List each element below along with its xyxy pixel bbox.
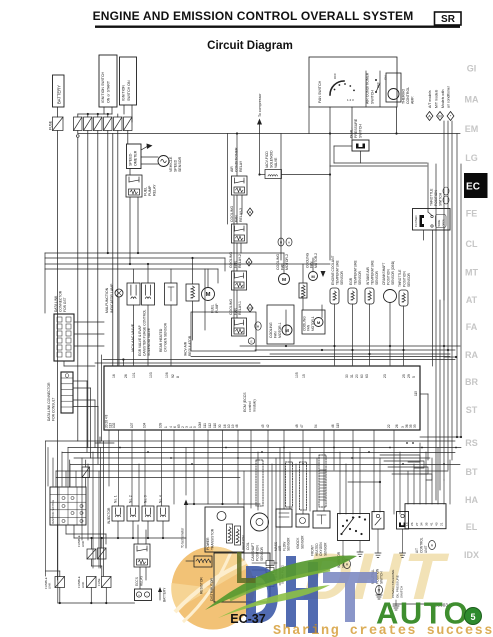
- neutral position switch: [371, 512, 384, 595]
- wire feeds to vent valve: [205, 196, 234, 332]
- dual pressure switch: [350, 118, 370, 151]
- wire dual pressure to rail: [330, 146, 427, 166]
- svg-text:31: 31: [350, 374, 354, 378]
- distributor box: [210, 553, 270, 602]
- svg-text:45: 45: [261, 424, 265, 428]
- wires fuel pump relay: [130, 169, 138, 265]
- legend A/T models: [426, 90, 433, 120]
- svg-text:CRANKSHAFT: CRANKSHAFT: [382, 263, 386, 285]
- SR section box: [435, 12, 462, 25]
- svg-text:47: 47: [300, 424, 304, 428]
- svg-text:DUAL-: DUAL-: [350, 127, 354, 138]
- svg-text:SENSOR: SENSOR: [340, 270, 344, 285]
- svg-text:109: 109: [159, 422, 163, 428]
- ignition switch ON box: [120, 57, 137, 105]
- svg-text:SWITCH: SWITCH: [438, 192, 442, 206]
- svg-text:CAMSHAFT: CAMSHAFT: [251, 543, 255, 561]
- svg-text:15: 15: [302, 374, 306, 378]
- svg-text:Models with: Models with: [441, 89, 445, 108]
- svg-text:KNOCK: KNOCK: [296, 537, 300, 549]
- fuse row F1-F6: [74, 117, 133, 131]
- svg-text:No. 3: No. 3: [144, 495, 148, 503]
- ground symbols bottom right: [376, 585, 399, 610]
- svg-text:Sharing creates success: Sharing creates success: [273, 624, 493, 637]
- svg-text:FAN: FAN: [235, 215, 239, 222]
- svg-text:54: 54: [314, 424, 318, 428]
- EGR valve and EVAP canister purge control solenoid valve: [138, 283, 155, 365]
- throttle position sensor: [398, 269, 411, 365]
- watermark sharing creates success: [273, 624, 493, 637]
- svg-text:SPEED: SPEED: [174, 159, 178, 172]
- svg-text:25: 25: [402, 374, 406, 378]
- svg-text:103: 103: [149, 372, 153, 378]
- svg-text:ECCS: ECCS: [135, 577, 139, 586]
- svg-text:RELAY-1: RELAY-1: [238, 301, 242, 315]
- fuse bottom 2: [97, 577, 111, 588]
- svg-text:THROTTLE: THROTTLE: [398, 269, 402, 287]
- rear heated oxygen sensor: [159, 283, 177, 365]
- svg-text:OMETER: OMETER: [134, 150, 138, 166]
- EC tab (active): [464, 173, 488, 198]
- svg-text:IGNITION SWITCH: IGNITION SWITCH: [51, 500, 55, 524]
- bottom left connection wires: [46, 525, 187, 604]
- svg-text:LINK: LINK: [48, 583, 52, 589]
- svg-text:60: 60: [360, 374, 364, 378]
- svg-text:To tachometer: To tachometer: [181, 527, 185, 548]
- IACV-AAC valve: [127, 283, 140, 365]
- svg-text:SOLENOID: SOLENOID: [270, 150, 274, 168]
- svg-text:42: 42: [266, 424, 270, 428]
- fusible link 3 (left): [44, 577, 65, 590]
- ECM top pin numbers: [112, 372, 416, 378]
- relay-1 enclosure box: [191, 312, 261, 351]
- vehicle speed sensor VSS: [141, 156, 182, 173]
- svg-text:29: 29: [407, 374, 411, 378]
- motor wires: [284, 253, 322, 334]
- svg-text:ENGINE AND EMISSION CONTROL OV: ENGINE AND EMISSION CONTROL OVERALL SYST…: [93, 9, 414, 23]
- wires data link to ECM: [64, 322, 104, 464]
- svg-text:SPEED-: SPEED-: [129, 152, 133, 166]
- MEC903A reference: [393, 603, 452, 608]
- svg-text:VALVE: VALVE: [274, 157, 278, 168]
- svg-text:110: 110: [213, 423, 217, 428]
- relay stack wires: [237, 195, 242, 318]
- ECM (ECCS control module) box: [104, 366, 420, 430]
- svg-text:8: 8: [176, 376, 180, 378]
- svg-text:FE: FE: [466, 209, 478, 219]
- svg-text:22: 22: [387, 424, 391, 428]
- svg-text:FUEL: FUEL: [144, 187, 148, 196]
- svg-text:UNIT: UNIT: [424, 546, 428, 553]
- resistor: [186, 556, 212, 594]
- svg-text:105: 105: [295, 372, 299, 378]
- power steering oil pressure switch: [391, 512, 409, 599]
- page title: [93, 9, 460, 28]
- power transistor: [205, 507, 244, 552]
- svg-text:MOTOR-2: MOTOR-2: [285, 254, 289, 270]
- svg-text:CONDITIONER: CONDITIONER: [235, 147, 239, 172]
- injector No.4: [157, 495, 169, 521]
- svg-text:CLOSED: CLOSED: [414, 215, 418, 227]
- watermark circle (under): [171, 546, 254, 629]
- svg-text:30: 30: [218, 424, 222, 428]
- svg-text:No. 1: No. 1: [114, 495, 118, 503]
- svg-text:AIR: AIR: [230, 166, 234, 172]
- svg-text:POSITION: POSITION: [386, 269, 390, 285]
- svg-text:-: -: [146, 593, 147, 597]
- svg-text:INJECTOR: INJECTOR: [107, 507, 111, 524]
- svg-text:POWER: POWER: [206, 537, 210, 550]
- EGR temperature sensor: [348, 260, 362, 365]
- mass air flow sensor: [274, 509, 292, 551]
- A/T control unit: [405, 504, 446, 553]
- svg-text:PRESSURE: PRESSURE: [354, 118, 358, 138]
- fuse above ignition switch: [70, 460, 90, 487]
- svg-text:112: 112: [208, 423, 212, 428]
- svg-text:111: 111: [203, 423, 207, 428]
- main bus wires below ECM: [46, 437, 462, 576]
- svg-text:FUSE: FUSE: [97, 578, 101, 586]
- svg-text:46: 46: [331, 424, 335, 428]
- svg-text:SWITCH ON: SWITCH ON: [127, 80, 131, 101]
- battery (bottom): [135, 587, 167, 602]
- svg-text:RA: RA: [465, 350, 478, 360]
- watermark badge circle 5: [465, 608, 482, 625]
- svg-text:M: M: [248, 306, 251, 311]
- svg-text:SENSOR: SENSOR: [407, 272, 411, 287]
- battery B1 (top): [53, 75, 65, 107]
- svg-text:COOLING: COOLING: [229, 252, 233, 268]
- shielded cable symbols: [256, 455, 326, 510]
- svg-text:HA: HA: [465, 495, 478, 505]
- svg-text:THROTTLE: THROTTLE: [430, 188, 434, 206]
- svg-text:115: 115: [414, 391, 418, 396]
- svg-text:FUSE: FUSE: [49, 120, 53, 130]
- svg-text:To compressor: To compressor: [258, 93, 262, 117]
- svg-text:ECM (ECCS: ECM (ECCS: [243, 392, 247, 412]
- svg-text:RELAY: RELAY: [153, 184, 157, 196]
- svg-text:COOLING: COOLING: [276, 254, 280, 270]
- svg-text:16: 16: [112, 374, 116, 378]
- svg-text:TRANSISTOR: TRANSISTOR: [211, 528, 215, 550]
- svg-text:115: 115: [336, 423, 340, 428]
- svg-text:IACV-FICD: IACV-FICD: [265, 151, 269, 168]
- svg-text:CANISTER PURGE CONTROL: CANISTER PURGE CONTROL: [142, 309, 146, 356]
- ECCS relay: [134, 544, 150, 586]
- injector No.3: [142, 495, 154, 521]
- svg-text:POSITION: POSITION: [402, 271, 406, 287]
- svg-text:102: 102: [112, 422, 116, 428]
- data link connector for CONSULT: [47, 372, 73, 421]
- svg-text:No. 4: No. 4: [159, 495, 163, 503]
- svg-text:ST: ST: [466, 405, 478, 415]
- svg-text:Circuit Diagram: Circuit Diagram: [207, 40, 293, 52]
- svg-text:TEMPERATURE: TEMPERATURE: [353, 260, 357, 285]
- svg-text:MT: MT: [465, 268, 478, 278]
- svg-text:WIDE: WIDE: [437, 219, 441, 226]
- svg-text:FAN SWITCH: FAN SWITCH: [318, 80, 322, 103]
- svg-text:REAR HEATED: REAR HEATED: [159, 328, 163, 352]
- svg-text:BT: BT: [466, 467, 478, 477]
- watermark leaf swoosh: [205, 556, 357, 619]
- svg-text:CONNECTOR: CONNECTOR: [58, 290, 62, 312]
- svg-text:33: 33: [413, 424, 417, 428]
- svg-text:27: 27: [415, 522, 419, 526]
- right rail wires: [420, 121, 462, 500]
- svg-text:M: M: [206, 292, 211, 298]
- cooling fan motor-1 (M/T): [302, 310, 325, 334]
- svg-text:No. 2: No. 2: [129, 495, 133, 503]
- cooling fan relay-3: [230, 206, 253, 243]
- air conditioner switch: [366, 71, 388, 107]
- air conditioner relay: [230, 132, 247, 195]
- svg-text:IACV-AIR: IACV-AIR: [184, 341, 188, 356]
- main feed wire to right rail: [77, 134, 461, 138]
- throttle position switch: [413, 163, 451, 366]
- ignition switch contact table: [50, 487, 86, 525]
- svg-text:IGNITION SWITCH: IGNITION SWITCH: [101, 71, 105, 103]
- svg-text:35: 35: [425, 522, 429, 526]
- engine coolant temperature sensor: [330, 256, 344, 366]
- svg-text:14: 14: [405, 522, 409, 526]
- svg-text:26: 26: [395, 424, 399, 428]
- ignition switch ON or START box: [99, 55, 117, 107]
- stair step wires to A/T unit: [380, 455, 432, 480]
- svg-text:EC: EC: [466, 182, 480, 193]
- IACV-FICD solenoid valve: [228, 134, 332, 225]
- svg-text:SWITCH: SWITCH: [359, 124, 363, 138]
- svg-text:SOLENOID VALVE: SOLENOID VALVE: [147, 327, 151, 356]
- svg-text:COIL: COIL: [246, 542, 250, 550]
- svg-text:SENSOR: SENSOR: [178, 156, 182, 172]
- svg-text:SENSOR: SENSOR: [323, 542, 327, 556]
- svg-text:TEMPERATURE: TEMPERATURE: [370, 260, 374, 285]
- svg-text:107: 107: [130, 422, 134, 428]
- crankshaft position sensor (OBD): [382, 261, 397, 365]
- svg-text:RESISTOR: RESISTOR: [200, 577, 204, 594]
- watermark dark stem: [237, 552, 256, 583]
- svg-text:A/T: A/T: [415, 548, 419, 553]
- svg-text:REGULATOR: REGULATOR: [188, 335, 192, 356]
- svg-text:43: 43: [434, 522, 438, 526]
- malfunction indicator lamp: [105, 283, 123, 365]
- bottom drop wires: [48, 430, 450, 585]
- svg-text:OPEN: OPEN: [442, 219, 446, 226]
- svg-text:5: 5: [470, 612, 475, 622]
- svg-text:OXYGEN SENSOR: OXYGEN SENSOR: [164, 322, 168, 352]
- fusible link 1: [77, 535, 96, 559]
- svg-text:SWITCH: SWITCH: [370, 90, 374, 104]
- watermark AUTO text: [376, 596, 469, 631]
- svg-text:92: 92: [171, 374, 175, 378]
- collector bus above ECM: [95, 345, 460, 366]
- svg-text:GI: GI: [467, 64, 477, 74]
- svg-text:LG: LG: [465, 153, 478, 163]
- wire ign boxes to fuse row: [78, 105, 132, 122]
- svg-text:AT: AT: [466, 295, 478, 305]
- svg-text:LINK: LINK: [81, 541, 85, 547]
- svg-text:FA: FA: [466, 322, 478, 332]
- svg-text:20: 20: [355, 374, 359, 378]
- svg-text:EL: EL: [466, 522, 478, 532]
- cooling fan motor-2 (M/T): [306, 252, 326, 280]
- svg-text:THERMO: THERMO: [402, 89, 406, 104]
- bus stubs to valves: [134, 257, 194, 284]
- front heated oxygen sensor: [311, 511, 331, 556]
- fuse bottom: [77, 576, 96, 588]
- svg-text:module): module): [253, 399, 257, 412]
- svg-text:COOLING: COOLING: [229, 299, 233, 315]
- svg-text:CONTROL: CONTROL: [419, 537, 423, 553]
- section tabs column: [464, 64, 479, 561]
- svg-text:23: 23: [383, 374, 387, 378]
- wires from A/C enclosure down: [281, 107, 398, 260]
- legend M/T models: [435, 90, 444, 121]
- cooling fan motor-2 (A/T): [276, 238, 292, 285]
- svg-text:46: 46: [235, 424, 239, 428]
- svg-text:ON: ON: [384, 76, 388, 81]
- fan switch rotary: [318, 73, 355, 103]
- svg-text:ENGINE COOLANT: ENGINE COOLANT: [331, 256, 335, 286]
- svg-text:M: M: [282, 277, 286, 283]
- speedometer box: [127, 144, 142, 169]
- to tachometer wire: [181, 500, 261, 549]
- to compressor wire with arrow: [257, 93, 262, 134]
- svg-text:SENSOR: SENSOR: [300, 535, 304, 549]
- intake air temperature sensor: [365, 260, 379, 365]
- svg-text:+: +: [138, 593, 140, 597]
- svg-text:MALFUNCTION: MALFUNCTION: [105, 287, 109, 313]
- spark plugs: [252, 561, 285, 587]
- svg-text:SENSOR: SENSOR: [260, 546, 264, 561]
- svg-text:PUMP: PUMP: [215, 303, 219, 313]
- ignition coil: [227, 524, 250, 550]
- svg-text:DATA LINK CONNECTOR: DATA LINK CONNECTOR: [47, 382, 51, 421]
- svg-text:COOLING: COOLING: [230, 206, 234, 222]
- svg-text:SENSOR: SENSOR: [287, 537, 291, 551]
- svg-text:control: control: [248, 401, 252, 412]
- watermark DHT letters (over): [246, 556, 377, 633]
- svg-text:BATTERY: BATTERY: [163, 587, 167, 602]
- svg-text:PUMP: PUMP: [148, 185, 152, 196]
- svg-text:BATTERY: BATTERY: [57, 85, 62, 104]
- svg-text:1 2 3: 1 2 3: [347, 98, 354, 102]
- svg-text:FOR GST: FOR GST: [63, 297, 67, 312]
- svg-text:RS: RS: [465, 438, 478, 448]
- svg-text:5: 5: [412, 376, 416, 378]
- svg-text:air conditioner: air conditioner: [447, 85, 451, 108]
- fuse drop wires: [78, 131, 128, 459]
- svg-text:RELAY-2: RELAY-2: [238, 254, 242, 268]
- svg-text:SENSOR (OBD): SENSOR (OBD): [391, 261, 395, 285]
- injector No.1: [107, 495, 124, 524]
- svg-text:MOTOR-1: MOTOR-1: [278, 322, 282, 338]
- camshaft position sensor: [251, 513, 269, 561]
- svg-text:106: 106: [165, 372, 169, 378]
- svg-text:SR: SR: [441, 14, 456, 25]
- fuel pump motor: [202, 269, 219, 313]
- svg-text:26: 26: [410, 522, 414, 526]
- cooling fan relay-1: [229, 299, 253, 336]
- svg-text:SWITCH: SWITCH: [380, 571, 384, 584]
- inhibitor switch: [337, 481, 381, 569]
- svg-text:5: 5: [193, 426, 197, 428]
- knock sensor: [296, 514, 309, 549]
- svg-text:INDICATOR LAMP: INDICATOR LAMP: [110, 283, 114, 313]
- A/C control enclosure box: [309, 57, 397, 107]
- svg-text:E: E: [250, 340, 252, 344]
- svg-text:1: 1: [164, 426, 168, 428]
- svg-text:EM: EM: [465, 124, 479, 134]
- fuel pump relay: [126, 175, 157, 197]
- fusible link 2: [98, 548, 107, 559]
- thermo control amp: [386, 73, 415, 104]
- mid bus wires: [45, 252, 330, 313]
- wire battery to fuse: [57, 107, 59, 117]
- svg-text:RELAY: RELAY: [239, 160, 243, 172]
- svg-text:MOTOR-2: MOTOR-2: [314, 253, 318, 268]
- svg-text:RELAY-3: RELAY-3: [239, 208, 243, 222]
- svg-text:COOLING: COOLING: [269, 322, 273, 338]
- svg-text:AMP.: AMP.: [411, 96, 415, 104]
- svg-text:EC-37: EC-37: [230, 612, 265, 626]
- svg-text:FOR CONSULT: FOR CONSULT: [52, 398, 56, 421]
- svg-text:DATA LINK: DATA LINK: [54, 295, 58, 312]
- injector ground bus: [117, 521, 164, 539]
- svg-text:VEHICLE: VEHICLE: [169, 156, 173, 172]
- svg-text:IACV-AAC VALVE: IACV-AAC VALVE: [131, 323, 135, 352]
- svg-text:A: A: [428, 114, 431, 119]
- cooling fan relay-2: [229, 252, 252, 290]
- svg-text:IGNITION: IGNITION: [122, 85, 126, 101]
- svg-text:M/T models: M/T models: [435, 90, 439, 108]
- svg-text:LINK: LINK: [81, 582, 85, 588]
- svg-text:TEMPERATURE: TEMPERATURE: [335, 260, 339, 285]
- injector No.2: [127, 495, 139, 521]
- svg-text:SENSOR: SENSOR: [375, 270, 379, 285]
- watermark ghost DHT (under): [295, 540, 455, 614]
- legend models with A/C: [441, 85, 454, 120]
- svg-text:OFF: OFF: [333, 73, 337, 79]
- svg-text:26: 26: [124, 374, 128, 378]
- ECM bottom pin numbers: [105, 414, 418, 428]
- svg-text:A/T models: A/T models: [428, 90, 432, 108]
- svg-text:DISTRIBUTOR: DISTRIBUTOR: [210, 578, 214, 601]
- ECM right side pin wire: [414, 391, 428, 460]
- svg-text:CL: CL: [466, 239, 478, 249]
- svg-text:EGR: EGR: [349, 277, 353, 285]
- svg-text:FAN: FAN: [274, 331, 278, 338]
- svg-text:MA: MA: [465, 95, 479, 105]
- svg-text:A: A: [249, 210, 252, 215]
- svg-text:101: 101: [132, 372, 136, 378]
- svg-text:104: 104: [143, 422, 147, 428]
- left vertical rail from battery fuse: [57, 131, 59, 581]
- fuse F0 with FUSE label: [49, 117, 64, 131]
- svg-text:EGR VALVE & EVAP: EGR VALVE & EVAP: [138, 324, 142, 356]
- svg-text:10M: 10M: [198, 421, 202, 428]
- svg-text:SENSOR: SENSOR: [358, 270, 362, 285]
- IACV-air regulator: [184, 284, 200, 356]
- cooling fan motor-1 (A/T): [267, 305, 294, 344]
- svg-text:CONTROL: CONTROL: [406, 87, 410, 104]
- svg-text:BR: BR: [465, 377, 478, 387]
- svg-text:21: 21: [439, 522, 443, 526]
- svg-text:M: M: [438, 114, 441, 119]
- svg-text:INTAKE AIR: INTAKE AIR: [366, 266, 370, 285]
- svg-text:IGNITION: IGNITION: [242, 535, 246, 550]
- data link connector for GST: [54, 290, 74, 361]
